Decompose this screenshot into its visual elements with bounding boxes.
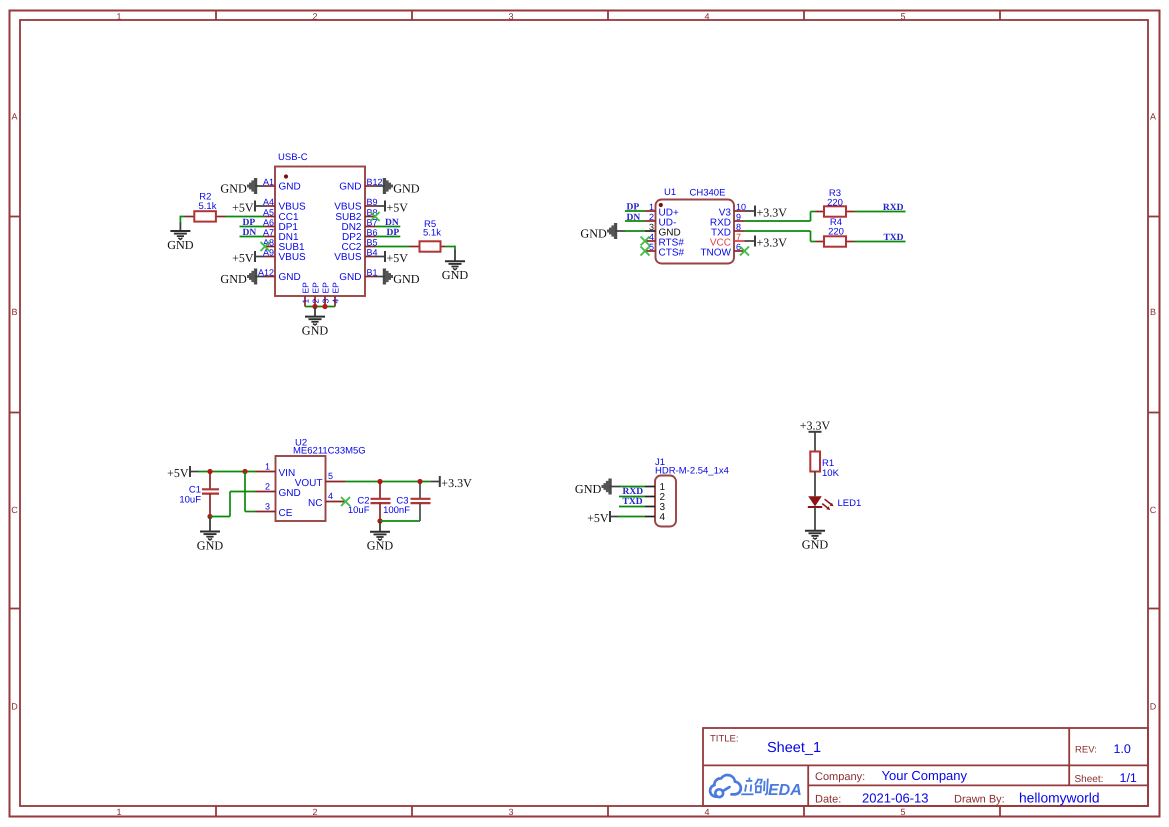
ground flag A1 xyxy=(220,178,256,195)
svg-text:DP: DP xyxy=(243,218,256,228)
wire CC2 xyxy=(375,246,410,248)
junction C2-top xyxy=(377,479,382,484)
resistor R2 xyxy=(185,192,226,222)
svg-text:EP: EP xyxy=(330,282,340,294)
svg-text:10uF: 10uF xyxy=(348,505,370,516)
svg-text:+3.3V: +3.3V xyxy=(441,476,472,490)
svg-text:Company:: Company: xyxy=(815,771,865,783)
USB-C pin EP2 xyxy=(310,282,320,307)
IC U1 CH340E xyxy=(656,200,735,264)
svg-text:GND: GND xyxy=(220,181,247,195)
U2 pin 3 CE xyxy=(256,502,293,520)
J1 pin 4 xyxy=(645,512,666,523)
title block texts xyxy=(710,734,1137,806)
ground flag U1.3 xyxy=(580,223,616,240)
svg-text:TNOW: TNOW xyxy=(700,248,731,259)
wire DP (B6) xyxy=(375,236,400,238)
USB-C pin B6 DP2 xyxy=(342,228,377,244)
wire +5V to VIN xyxy=(190,471,256,473)
row ticks left xyxy=(10,217,21,609)
row letters left xyxy=(11,112,18,712)
power +5V J1.4 xyxy=(587,511,610,525)
svg-text:CE: CE xyxy=(279,508,293,519)
U2 pin 2 GND xyxy=(256,482,301,500)
svg-text:3: 3 xyxy=(320,299,330,304)
title block frame xyxy=(703,728,1148,806)
svg-text:5: 5 xyxy=(328,471,333,481)
svg-text:EP: EP xyxy=(310,282,320,294)
svg-text:GND: GND xyxy=(279,488,301,499)
U1 pin 10 V3 xyxy=(719,202,746,219)
ground LED xyxy=(802,530,829,552)
svg-text:GND: GND xyxy=(442,268,469,282)
connector USB-C xyxy=(275,167,365,297)
svg-text:5: 5 xyxy=(900,12,905,22)
no-connect B8 xyxy=(371,212,380,221)
svg-text:+5V: +5V xyxy=(387,251,409,265)
svg-text:TITLE:: TITLE: xyxy=(710,734,739,745)
svg-text:2021-06-13: 2021-06-13 xyxy=(862,791,929,806)
wire U1.10-+3.3V xyxy=(745,210,756,212)
svg-text:1: 1 xyxy=(265,462,270,472)
power +3.3V U1.7 xyxy=(755,235,787,249)
U1 pin 5 CTS# xyxy=(645,242,685,259)
svg-text:GND: GND xyxy=(197,538,224,552)
svg-text:EP: EP xyxy=(320,282,330,294)
svg-text:VIN: VIN xyxy=(279,468,296,479)
svg-text:9: 9 xyxy=(736,212,741,222)
power +5V B4 xyxy=(385,251,408,265)
ground flag A12 xyxy=(220,269,256,286)
USB-C pin A7 DN1 xyxy=(263,228,299,244)
wire +3.3V to R1 xyxy=(814,432,816,452)
USB-C pin B1 GND xyxy=(339,268,377,284)
svg-text:U1: U1 xyxy=(664,187,676,198)
svg-text:2: 2 xyxy=(265,482,270,492)
ground C2 xyxy=(367,521,394,553)
no-connect U2.4 xyxy=(341,497,350,506)
svg-text:EP: EP xyxy=(300,282,310,294)
svg-text:+5V: +5V xyxy=(587,511,609,525)
svg-text:TXD: TXD xyxy=(623,497,643,507)
svg-text:CTS#: CTS# xyxy=(659,248,685,259)
svg-text:+3.3V: +3.3V xyxy=(800,418,831,432)
svg-text:5.1k: 5.1k xyxy=(423,228,441,239)
svg-text:GND: GND xyxy=(580,226,607,240)
svg-text:3: 3 xyxy=(508,807,513,817)
column numbers top xyxy=(116,12,905,22)
svg-text:1: 1 xyxy=(116,807,121,817)
row letters right xyxy=(1150,112,1157,712)
resistor R1 xyxy=(810,452,839,480)
svg-text:+5V: +5V xyxy=(232,200,254,214)
wire B12-gnd xyxy=(375,185,385,187)
svg-text:RXD: RXD xyxy=(883,203,904,213)
wire DP (A6) xyxy=(240,226,266,228)
svg-text:VBUS: VBUS xyxy=(334,252,362,263)
svg-text:Drawn By:: Drawn By: xyxy=(954,794,1005,806)
wire U1.9 to R3 xyxy=(745,212,816,222)
svg-text:3: 3 xyxy=(265,502,270,512)
row ticks right xyxy=(1148,217,1160,609)
svg-text:GND: GND xyxy=(393,272,420,286)
svg-text:1.0: 1.0 xyxy=(1114,742,1131,756)
capacitor C2 xyxy=(348,482,391,522)
USB-C pin A8 SUB1 xyxy=(263,238,305,254)
svg-text:1: 1 xyxy=(300,299,310,304)
wire A4-+5V xyxy=(255,205,265,207)
wire VOUT-+3.3V lead xyxy=(430,481,440,483)
resistor R5 xyxy=(410,219,446,252)
svg-text:4: 4 xyxy=(660,512,666,523)
svg-text:1: 1 xyxy=(116,12,121,22)
svg-text:VBUS: VBUS xyxy=(279,252,307,263)
junction CE-tap xyxy=(242,469,247,474)
svg-text:REV:: REV: xyxy=(1075,745,1097,756)
U1 pin 8 TXD xyxy=(711,222,745,239)
wire B9-+5V xyxy=(375,205,385,207)
wire CC1 xyxy=(226,216,266,218)
svg-text:7: 7 xyxy=(736,232,741,242)
wire LED to gnd xyxy=(814,507,816,531)
wire RXD (J1.2) xyxy=(619,496,645,498)
svg-text:ME6211C33M5G: ME6211C33M5G xyxy=(293,446,366,457)
USB-C pin EP4 xyxy=(330,282,340,307)
svg-text:GND: GND xyxy=(367,539,394,553)
svg-text:GND: GND xyxy=(802,538,829,552)
U1 pin-1 dot xyxy=(659,203,663,207)
svg-text:1/1: 1/1 xyxy=(1120,771,1137,785)
connector J1 HDR-M-2.54_1x4 xyxy=(655,476,676,527)
power +3.3V U1.10 xyxy=(755,205,787,219)
junction C2-bottom xyxy=(377,518,382,523)
svg-text:A: A xyxy=(1150,112,1156,122)
svg-text:2: 2 xyxy=(310,299,320,304)
U1 pin 2 UD- xyxy=(645,212,676,229)
USB-C pin A6 DP1 xyxy=(263,218,298,234)
no-connect U1.6 xyxy=(740,247,749,256)
svg-text:GND: GND xyxy=(302,323,329,337)
column ticks top xyxy=(216,11,1000,21)
svg-text:A: A xyxy=(11,112,17,122)
ground flag J1.1 xyxy=(575,479,611,496)
svg-text:2: 2 xyxy=(312,807,317,817)
ground C1 xyxy=(197,517,224,553)
wire A1-gnd xyxy=(255,185,265,187)
svg-text:CH340E: CH340E xyxy=(690,188,726,199)
svg-text:8: 8 xyxy=(736,222,741,232)
wire J1.4-+5V xyxy=(610,516,645,518)
wire EP bus xyxy=(305,306,335,308)
ground flag B12 xyxy=(384,178,420,195)
wire TXD xyxy=(855,241,906,243)
ground R2 xyxy=(167,223,194,252)
junction C3-top xyxy=(417,479,422,484)
svg-text:220: 220 xyxy=(828,227,844,238)
U1 pin 9 RXD xyxy=(710,212,745,229)
svg-text:LED1: LED1 xyxy=(838,498,862,509)
svg-text:B: B xyxy=(1150,307,1156,317)
no-connect U1.5 xyxy=(641,247,650,256)
USB-C pin A9 VBUS xyxy=(263,248,306,264)
svg-text:GND: GND xyxy=(575,482,602,496)
J1 pin 2 xyxy=(645,492,666,503)
U2 pin 4 NC xyxy=(308,491,345,509)
wire U1.3-gnd xyxy=(615,230,645,232)
svg-text:10K: 10K xyxy=(822,468,840,479)
svg-text:4: 4 xyxy=(704,12,709,22)
power +5V U2 xyxy=(167,466,190,480)
svg-text:4: 4 xyxy=(330,299,340,304)
U1 pin 6 TNOW xyxy=(700,242,744,259)
svg-text:5.1k: 5.1k xyxy=(199,201,217,212)
USB-C pin B5 CC2 xyxy=(341,238,377,254)
ground USB-C xyxy=(302,307,329,338)
svg-text:Your Company: Your Company xyxy=(882,768,968,783)
svg-text:DN: DN xyxy=(385,218,399,228)
svg-text:hellomyworld: hellomyworld xyxy=(1019,791,1100,806)
svg-text:2: 2 xyxy=(649,212,654,222)
no-connect U1.4 xyxy=(641,237,650,246)
wire A9-+5V xyxy=(255,256,265,258)
wire DN (A7) xyxy=(240,236,266,238)
power +5V A4 xyxy=(232,200,255,214)
wire R1 to LED xyxy=(814,472,816,497)
svg-text:VOUT: VOUT xyxy=(295,478,323,489)
svg-text:RXD: RXD xyxy=(623,487,644,497)
svg-text:220: 220 xyxy=(827,198,843,209)
svg-text:+5V: +5V xyxy=(167,466,189,480)
svg-text:DN: DN xyxy=(627,213,641,223)
svg-text:GND: GND xyxy=(339,272,361,283)
USB-C pin B7 DN2 xyxy=(341,218,377,234)
column numbers bottom xyxy=(116,807,905,817)
svg-text:100nF: 100nF xyxy=(383,505,410,516)
U2 pin 5 VOUT xyxy=(295,471,346,489)
J1 pin 3 xyxy=(645,502,666,513)
svg-text:D: D xyxy=(11,702,18,712)
svg-text:EDA: EDA xyxy=(768,782,802,799)
power +3.3V LED branch xyxy=(800,418,831,432)
svg-text:4: 4 xyxy=(328,491,333,501)
svg-text:VBUS: VBUS xyxy=(279,202,307,213)
svg-text:Date:: Date: xyxy=(815,794,841,806)
USB-C pin A5 CC1 xyxy=(263,208,299,224)
svg-text:+5V: +5V xyxy=(387,200,409,214)
wire J1.1-gnd xyxy=(610,486,646,488)
svg-text:GND: GND xyxy=(279,182,301,193)
svg-text:GND: GND xyxy=(393,181,420,195)
EasyEDA logo xyxy=(710,775,802,799)
svg-text:C: C xyxy=(11,505,18,515)
resistor R4 xyxy=(816,217,855,247)
USB-C pin A12 GND xyxy=(258,268,301,284)
svg-text:USB-C: USB-C xyxy=(278,152,308,163)
wire U1.8 to R4 xyxy=(745,231,816,242)
wire VOUT rail xyxy=(346,481,431,483)
wire A12-gnd xyxy=(255,276,265,278)
USB-C pin B4 VBUS xyxy=(334,248,377,264)
J1 pin 1 xyxy=(645,482,666,493)
USB-C pin B12 GND xyxy=(339,177,382,193)
junction C1-bottom xyxy=(207,514,212,519)
wire C3 to C2 gnd xyxy=(380,520,420,522)
svg-text:DN: DN xyxy=(243,228,257,238)
svg-text:+5V: +5V xyxy=(232,251,254,265)
svg-text:GND: GND xyxy=(167,238,194,252)
wire DN (U1.2) xyxy=(625,220,645,222)
U2 pin 1 VIN xyxy=(256,462,296,480)
svg-text:Sheet:: Sheet: xyxy=(1075,774,1104,785)
svg-text:+3.3V: +3.3V xyxy=(757,205,788,219)
wire DN (B7) xyxy=(375,226,400,228)
power +5V B9 xyxy=(385,200,408,214)
svg-text:10uF: 10uF xyxy=(179,494,201,505)
USB-C pin A4 VBUS xyxy=(263,197,306,213)
ground flag B1 xyxy=(384,269,420,286)
svg-text:1: 1 xyxy=(649,202,654,212)
U1 pin 3 GND xyxy=(645,222,681,239)
svg-text:D: D xyxy=(1150,702,1157,712)
no-connect A8 xyxy=(261,242,270,251)
USB-C pin A1 GND xyxy=(263,177,301,193)
LED LED1 xyxy=(808,496,861,510)
wire B4-+5V xyxy=(375,256,385,258)
wire CE to +5V xyxy=(245,472,256,512)
USB-C pin-1 dot xyxy=(284,174,288,178)
wire R2 to gnd xyxy=(180,216,184,223)
power +5V A9 xyxy=(232,251,255,265)
junction C1-top xyxy=(207,469,212,474)
svg-text:NC: NC xyxy=(308,498,322,509)
wire R5 to gnd xyxy=(445,246,455,250)
U1 pin 1 UD+ xyxy=(645,202,679,219)
wire C1 to U2.GND xyxy=(210,492,256,517)
U1 pin 7 VCC xyxy=(710,232,745,249)
svg-text:B: B xyxy=(11,307,17,317)
wire DP (U1.1) xyxy=(625,210,645,212)
capacitor C3 xyxy=(383,482,430,522)
IC U2 ME6211C33M5G xyxy=(276,456,326,521)
svg-text:5: 5 xyxy=(900,807,905,817)
USB-C pin EP1 xyxy=(300,282,310,307)
USB-C pin B8 SUB2 xyxy=(335,208,377,224)
svg-text:C: C xyxy=(1150,505,1157,515)
power +3.3V VOUT xyxy=(440,476,472,490)
junction EP3 xyxy=(322,304,327,309)
wire U1.7-+3.3V xyxy=(745,240,756,242)
svg-text:3: 3 xyxy=(649,222,654,232)
svg-text:Sheet_1: Sheet_1 xyxy=(767,740,821,756)
ground R5 xyxy=(442,250,469,283)
U1 pin 4 RTS# xyxy=(645,232,684,249)
svg-text:GND: GND xyxy=(339,182,361,193)
wire B1-gnd xyxy=(375,276,385,278)
column ticks bottom xyxy=(216,806,1000,817)
svg-text:DP: DP xyxy=(387,228,400,238)
svg-text:2: 2 xyxy=(312,12,317,22)
junction EP2 xyxy=(312,304,317,309)
svg-text:VBUS: VBUS xyxy=(334,202,362,213)
svg-text:DP: DP xyxy=(627,203,640,213)
svg-text:GND: GND xyxy=(220,272,247,286)
svg-text:4: 4 xyxy=(704,807,709,817)
svg-text:3: 3 xyxy=(508,12,513,22)
wire RXD xyxy=(855,211,906,213)
wire TXD (J1.3) xyxy=(619,506,645,508)
resistor R3 xyxy=(816,188,855,217)
svg-text:+3.3V: +3.3V xyxy=(757,235,788,249)
svg-text:TXD: TXD xyxy=(883,233,903,243)
capacitor C1 xyxy=(179,472,219,517)
USB-C pin B9 VBUS xyxy=(334,197,377,213)
svg-text:GND: GND xyxy=(279,272,301,283)
USB-C pin EP3 xyxy=(320,282,330,307)
svg-text:HDR-M-2.54_1x4: HDR-M-2.54_1x4 xyxy=(655,466,729,477)
